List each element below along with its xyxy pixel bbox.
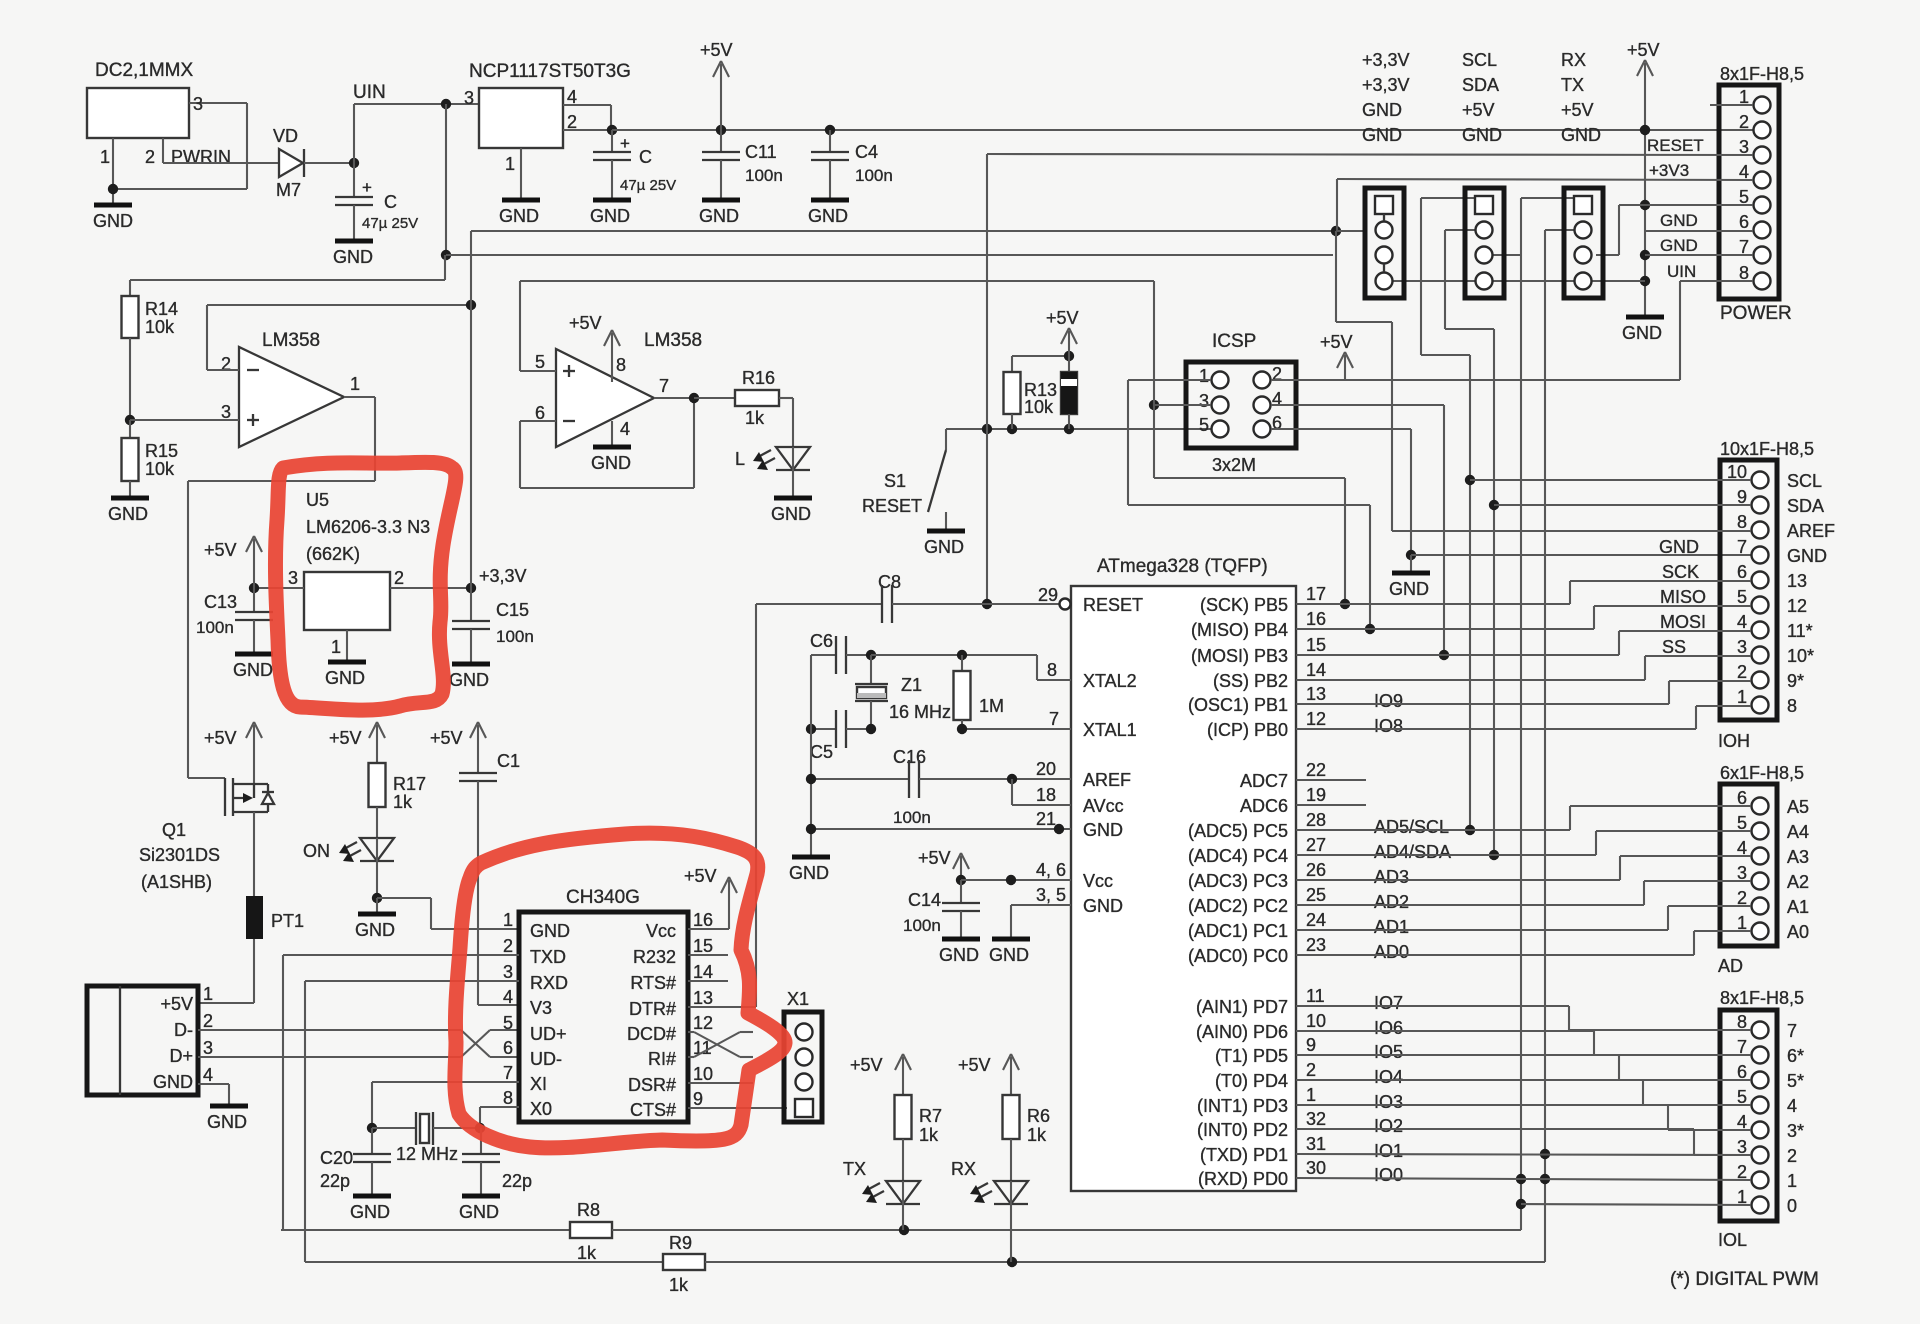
pin 1 GND (CH340) bbox=[503, 910, 570, 941]
svg-text:12: 12 bbox=[693, 1013, 713, 1033]
svg-text:5: 5 bbox=[503, 1013, 513, 1033]
svg-text:100n: 100n bbox=[893, 808, 931, 827]
svg-text:(ADC1) PC1: (ADC1) PC1 bbox=[1188, 921, 1288, 941]
svg-text:ATmega328 (TQFP): ATmega328 (TQFP) bbox=[1097, 556, 1268, 577]
pin 25 (ADC2) PC2 bbox=[1188, 885, 1409, 916]
svg-text:GND: GND bbox=[699, 206, 739, 226]
wire J3 +5V to POWER pin1 bbox=[1596, 205, 1645, 255]
crystal Q2 12 MHz bbox=[367, 1112, 485, 1164]
svg-text:AREF: AREF bbox=[1083, 770, 1131, 790]
pin 4 V3 (CH340) bbox=[503, 987, 552, 1018]
connector ICSP 3x2M bbox=[1186, 331, 1296, 475]
svg-text:(MISO) PB4: (MISO) PB4 bbox=[1191, 620, 1288, 640]
wire AD2 to AD pin3 bbox=[1296, 881, 1751, 905]
svg-text:SCL: SCL bbox=[1462, 50, 1497, 70]
ground GND (U5 pin1) bbox=[325, 630, 366, 688]
capacitor C21 22p bbox=[459, 1128, 532, 1222]
wire IO1 to IOL pin3 bbox=[1296, 1154, 1751, 1155]
wire POWER pin5 bbox=[1645, 204, 1753, 206]
svg-text:3: 3 bbox=[1737, 637, 1747, 657]
svg-text:GND: GND bbox=[591, 453, 631, 473]
svg-text:S1: S1 bbox=[884, 471, 906, 491]
svg-text:13: 13 bbox=[1306, 684, 1326, 704]
wire IO9 to IOH pin2 bbox=[1296, 681, 1751, 704]
wire +5V bus bbox=[612, 129, 1753, 131]
svg-text:8x1F-H8,5: 8x1F-H8,5 bbox=[1720, 64, 1804, 84]
svg-text:1k: 1k bbox=[745, 408, 765, 428]
pin 24 (ADC1) PC1 bbox=[1188, 910, 1409, 941]
svg-text:UIN: UIN bbox=[1667, 262, 1696, 281]
svg-text:2: 2 bbox=[1737, 662, 1747, 682]
svg-text:+3,3V: +3,3V bbox=[479, 566, 527, 586]
svg-text:UD+: UD+ bbox=[530, 1024, 567, 1044]
svg-text:GND: GND bbox=[989, 945, 1029, 965]
svg-text:2: 2 bbox=[394, 568, 404, 588]
svg-text:GND: GND bbox=[789, 863, 829, 883]
svg-text:RESET: RESET bbox=[862, 496, 922, 516]
wire PT1 to USB bbox=[198, 939, 254, 1003]
resistor R17 1k bbox=[369, 763, 427, 838]
svg-text:17: 17 bbox=[1306, 584, 1326, 604]
svg-text:25: 25 bbox=[1306, 885, 1326, 905]
svg-text:DCD#: DCD# bbox=[627, 1024, 676, 1044]
net labels column SCL SDA bbox=[1462, 50, 1502, 145]
IC CH340G bbox=[519, 887, 688, 1122]
svg-text:100n: 100n bbox=[745, 166, 783, 185]
wire RX net bbox=[1516, 198, 1574, 1230]
svg-text:GND: GND bbox=[1389, 579, 1429, 599]
svg-text:9: 9 bbox=[693, 1089, 703, 1109]
svg-text:7: 7 bbox=[1787, 1021, 1797, 1041]
svg-text:1: 1 bbox=[1737, 687, 1747, 707]
svg-text:GND: GND bbox=[1083, 896, 1123, 916]
svg-text:2: 2 bbox=[1306, 1060, 1316, 1080]
wire TX net bbox=[1540, 230, 1574, 1262]
svg-text:D-: D- bbox=[174, 1020, 193, 1040]
svg-text:13: 13 bbox=[693, 988, 713, 1008]
svg-text:11: 11 bbox=[1306, 986, 1325, 1006]
connector AD 6x1F-H8,5 bbox=[1718, 763, 1809, 976]
wire ICSP pin1 MISO bbox=[1128, 380, 1375, 634]
ground GND (regulator pin1) bbox=[499, 148, 540, 226]
pin 2 (T0) PD4 bbox=[1215, 1060, 1403, 1091]
svg-text:4: 4 bbox=[1787, 1096, 1797, 1116]
wire IO4 to IOL pin5 bbox=[1296, 1080, 1751, 1105]
pin 14 (SS) PB2 bbox=[1213, 660, 1326, 691]
svg-text:DSR#: DSR# bbox=[628, 1075, 676, 1095]
svg-text:AD4/SDA: AD4/SDA bbox=[1374, 842, 1451, 862]
svg-text:13: 13 bbox=[1787, 571, 1807, 591]
svg-text:3x2M: 3x2M bbox=[1212, 455, 1256, 475]
svg-text:L: L bbox=[735, 449, 745, 469]
svg-text:7: 7 bbox=[1737, 537, 1747, 557]
pin 5 UD+ (CH340) bbox=[503, 1013, 567, 1044]
svg-text:10k: 10k bbox=[1024, 397, 1054, 417]
wire op-amp2 feedback bbox=[520, 393, 699, 488]
svg-text:AD2: AD2 bbox=[1374, 892, 1409, 912]
svg-text:3*: 3* bbox=[1787, 1121, 1804, 1141]
svg-text:GND: GND bbox=[108, 504, 148, 524]
svg-text:+5V: +5V bbox=[1320, 332, 1353, 352]
svg-text:TX: TX bbox=[1561, 75, 1584, 95]
svg-text:+5V: +5V bbox=[1561, 100, 1594, 120]
wire MISO to IOH pin5 bbox=[1296, 606, 1751, 629]
svg-text:31: 31 bbox=[1306, 1134, 1326, 1154]
wire CH340 RXD bbox=[305, 981, 519, 1262]
wire AVcc pin18 bbox=[1012, 779, 1071, 805]
svg-text:8x1F-H8,5: 8x1F-H8,5 bbox=[1720, 988, 1804, 1008]
svg-text:4: 4 bbox=[203, 1065, 213, 1085]
capacitor C8 (DTR reset) bbox=[756, 572, 1060, 623]
svg-text:+5V: +5V bbox=[700, 40, 733, 60]
ground GND (crystal) bbox=[789, 857, 830, 883]
svg-text:10*: 10* bbox=[1787, 646, 1814, 666]
svg-text:+5V: +5V bbox=[329, 728, 362, 748]
svg-text:R16: R16 bbox=[742, 368, 775, 388]
svg-text:A4: A4 bbox=[1787, 822, 1809, 842]
svg-text:R15: R15 bbox=[145, 441, 178, 461]
resistor R14 10k bbox=[122, 280, 179, 420]
svg-text:9*: 9* bbox=[1787, 671, 1804, 691]
svg-text:C: C bbox=[639, 147, 652, 167]
capacitor C13 100n bbox=[196, 588, 273, 680]
wire RESET to POWER pin3 bbox=[987, 136, 1753, 155]
pin 8 XTAL2 bbox=[1047, 660, 1137, 691]
connector X1 bbox=[784, 989, 822, 1122]
pin 20 AREF bbox=[1036, 759, 1131, 790]
capacitor C4 100n bbox=[808, 125, 893, 226]
svg-text:SCK: SCK bbox=[1662, 562, 1699, 582]
svg-text:RI#: RI# bbox=[648, 1049, 676, 1069]
svg-text:IO7: IO7 bbox=[1374, 993, 1403, 1013]
svg-text:4: 4 bbox=[620, 419, 630, 439]
power +5V arrow (CH340 Vcc) bbox=[684, 866, 737, 929]
svg-text:14: 14 bbox=[693, 962, 713, 982]
svg-text:+3,3V: +3,3V bbox=[1362, 75, 1410, 95]
resistor R13 10k bbox=[1004, 351, 1075, 429]
svg-text:GND: GND bbox=[233, 660, 273, 680]
pin 10 DSR# (CH340) bbox=[628, 1064, 713, 1095]
LED L bbox=[735, 447, 810, 496]
svg-text:GND: GND bbox=[1362, 100, 1402, 120]
LED RX bbox=[951, 1159, 1028, 1262]
svg-text:16: 16 bbox=[693, 910, 713, 930]
svg-text:1: 1 bbox=[100, 147, 110, 167]
svg-text:+5V: +5V bbox=[958, 1055, 991, 1075]
svg-text:A1: A1 bbox=[1787, 897, 1809, 917]
power +5V arrow (C13) bbox=[204, 536, 262, 588]
wire DCD# RI# crossover bbox=[688, 1032, 753, 1057]
svg-text:C6: C6 bbox=[810, 631, 833, 651]
svg-text:VD: VD bbox=[273, 126, 298, 146]
svg-text:A5: A5 bbox=[1787, 797, 1809, 817]
svg-text:1: 1 bbox=[203, 984, 213, 1004]
svg-text:GND: GND bbox=[530, 921, 570, 941]
svg-text:6: 6 bbox=[1739, 212, 1749, 232]
wire SCL to IOH pin10 bbox=[1470, 479, 1751, 481]
svg-text:IO2: IO2 bbox=[1374, 1116, 1403, 1136]
pin 19 ADC6 bbox=[1240, 785, 1326, 816]
wire ICSP pin6 GND bbox=[1271, 429, 1753, 560]
wire R14 to UIN bbox=[130, 255, 445, 280]
power +5V arrow (top) bbox=[700, 40, 733, 130]
svg-text:IO4: IO4 bbox=[1374, 1067, 1403, 1087]
wire POWER pin6 GND bbox=[1645, 211, 1753, 231]
ground GND (S1) bbox=[924, 531, 965, 557]
pin 29 RESET bbox=[1038, 585, 1143, 615]
wire IO3 to IOL pin4 bbox=[1296, 1105, 1751, 1130]
svg-text:(MOSI) PB3: (MOSI) PB3 bbox=[1191, 646, 1288, 666]
svg-text:22: 22 bbox=[1306, 760, 1326, 780]
svg-text:1k: 1k bbox=[919, 1125, 939, 1145]
pin 15 (MOSI) PB3 bbox=[1191, 635, 1326, 666]
svg-text:IO8: IO8 bbox=[1374, 716, 1403, 736]
connector J1 4-pin bbox=[1365, 188, 1404, 298]
wire POWER pin8 UIN bbox=[1667, 262, 1753, 380]
power +5V arrow (ICSP) bbox=[1320, 332, 1353, 380]
wire USB D+ bbox=[198, 1030, 519, 1057]
svg-text:+5V: +5V bbox=[430, 728, 463, 748]
pin 16 (MISO) PB4 bbox=[1191, 609, 1326, 640]
wire AREF to IOH pin8 bbox=[1336, 231, 1751, 531]
svg-text:GND: GND bbox=[1462, 125, 1502, 145]
svg-text:CH340G: CH340G bbox=[566, 887, 640, 908]
wire UIN bus bbox=[446, 254, 1333, 256]
svg-text:IOH: IOH bbox=[1718, 731, 1750, 751]
wire ICSP pin2 +5V bbox=[1271, 379, 1680, 381]
pin 13 DTR# (CH340) bbox=[629, 988, 713, 1019]
pin 13 (OSC1) PB1 bbox=[1188, 684, 1403, 715]
wire DSR# bbox=[688, 1082, 753, 1084]
svg-text:7: 7 bbox=[659, 376, 669, 396]
power +5V arrow (R6) bbox=[958, 1054, 1019, 1095]
svg-text:R7: R7 bbox=[919, 1106, 942, 1126]
svg-text:GND: GND bbox=[924, 537, 964, 557]
wire ICSP pin4 MOSI bbox=[1271, 405, 1449, 660]
svg-text:29: 29 bbox=[1038, 585, 1058, 605]
svg-text:AD0: AD0 bbox=[1374, 942, 1409, 962]
svg-text:Si2301DS: Si2301DS bbox=[139, 845, 220, 865]
wire DTR to C8 bbox=[755, 604, 757, 1007]
svg-text:C1: C1 bbox=[497, 751, 520, 771]
wire IO7 to IOL pin8 bbox=[1296, 1006, 1751, 1030]
svg-text:ICSP: ICSP bbox=[1212, 331, 1256, 352]
svg-text:X0: X0 bbox=[530, 1099, 552, 1119]
pin 8 X0 (CH340) bbox=[503, 1088, 552, 1119]
svg-text:3: 3 bbox=[203, 1038, 213, 1058]
pin 1 (INT1) PD3 bbox=[1197, 1085, 1403, 1116]
svg-text:(T0) PD4: (T0) PD4 bbox=[1215, 1071, 1288, 1091]
svg-text:AD5/SCL: AD5/SCL bbox=[1374, 817, 1449, 837]
svg-text:8: 8 bbox=[616, 355, 626, 375]
wire DTR# bbox=[688, 1006, 756, 1008]
svg-text:Q1: Q1 bbox=[162, 820, 186, 840]
ground GND (pins 3,5) bbox=[989, 905, 1071, 965]
svg-text:R14: R14 bbox=[145, 299, 178, 319]
svg-text:+: + bbox=[620, 134, 630, 153]
connector USB bbox=[87, 984, 213, 1095]
annotation red circle around U5 bbox=[275, 462, 455, 710]
svg-text:+5V: +5V bbox=[204, 540, 237, 560]
wire CH340 TXD bbox=[283, 955, 519, 1230]
svg-text:3, 5: 3, 5 bbox=[1036, 885, 1066, 905]
pin 32 (INT0) PD2 bbox=[1197, 1109, 1403, 1140]
svg-text:(INT0) PD2: (INT0) PD2 bbox=[1197, 1120, 1288, 1140]
svg-text:A0: A0 bbox=[1787, 922, 1809, 942]
svg-text:C5: C5 bbox=[810, 742, 833, 762]
pin 26 (ADC3) PC3 bbox=[1188, 860, 1409, 891]
svg-text:(SS) PB2: (SS) PB2 bbox=[1213, 671, 1288, 691]
svg-text:22p: 22p bbox=[502, 1171, 532, 1191]
pin 6 UD- (CH340) bbox=[503, 1038, 562, 1069]
svg-text:AD1: AD1 bbox=[1374, 917, 1409, 937]
wire AD1 to AD pin2 bbox=[1296, 906, 1751, 930]
svg-text:AVcc: AVcc bbox=[1083, 796, 1124, 816]
svg-text:GND: GND bbox=[350, 1202, 390, 1222]
svg-text:GND: GND bbox=[459, 1202, 499, 1222]
svg-text:GND: GND bbox=[939, 945, 979, 965]
svg-text:(AIN1) PD7: (AIN1) PD7 bbox=[1196, 997, 1288, 1017]
svg-text:(RXD) PD0: (RXD) PD0 bbox=[1198, 1169, 1288, 1189]
svg-text:21: 21 bbox=[1036, 809, 1056, 829]
svg-text:2: 2 bbox=[1787, 1146, 1797, 1166]
svg-text:XTAL1: XTAL1 bbox=[1083, 720, 1137, 740]
svg-text:1: 1 bbox=[350, 374, 360, 394]
svg-text:6*: 6* bbox=[1787, 1046, 1804, 1066]
svg-text:(INT1) PD3: (INT1) PD3 bbox=[1197, 1096, 1288, 1116]
capacitor C14 100n bbox=[903, 880, 980, 965]
svg-text:23: 23 bbox=[1306, 935, 1326, 955]
power +5V arrow (Vcc) bbox=[918, 848, 969, 880]
ground GND (R15) bbox=[108, 498, 149, 524]
svg-text:1: 1 bbox=[331, 637, 341, 657]
ground GND (USB) bbox=[198, 1084, 248, 1132]
svg-text:TX: TX bbox=[843, 1159, 866, 1179]
svg-text:+3,3V: +3,3V bbox=[1362, 50, 1410, 70]
svg-text:V3: V3 bbox=[530, 998, 552, 1018]
wire U5 pin3 bbox=[249, 583, 304, 593]
svg-text:(T1) PD5: (T1) PD5 bbox=[1215, 1046, 1288, 1066]
svg-text:11*: 11* bbox=[1787, 621, 1813, 641]
svg-text:(ADC3) PC3: (ADC3) PC3 bbox=[1188, 871, 1288, 891]
svg-text:DC2,1MMX: DC2,1MMX bbox=[95, 60, 194, 81]
connector J3 4-pin bbox=[1564, 188, 1603, 298]
svg-text:3: 3 bbox=[288, 568, 298, 588]
svg-text:GND: GND bbox=[808, 206, 848, 226]
ground GND (ON LED) bbox=[355, 898, 396, 940]
svg-text:IO1: IO1 bbox=[1374, 1141, 1403, 1161]
pin 9 CTS# (CH340) bbox=[630, 1089, 703, 1120]
svg-text:C4: C4 bbox=[855, 142, 878, 162]
wire SCK to IOH pin6 bbox=[1296, 581, 1751, 604]
pin 21 GND bbox=[1036, 809, 1123, 840]
svg-text:A2: A2 bbox=[1787, 872, 1809, 892]
svg-text:1: 1 bbox=[503, 910, 513, 930]
svg-text:12 MHz: 12 MHz bbox=[396, 1144, 458, 1164]
transistor Q1 Si2301DS (A1SHB) bbox=[139, 778, 274, 892]
svg-text:RX: RX bbox=[951, 1159, 976, 1179]
svg-text:47µ 25V: 47µ 25V bbox=[362, 215, 418, 232]
op-amp U1A LM358 comparator bbox=[221, 330, 360, 447]
LED ON bbox=[303, 838, 394, 903]
LED TX bbox=[843, 1159, 920, 1230]
wire XTAL1 net bbox=[806, 724, 967, 734]
pin 14 RTS# (CH340) bbox=[630, 962, 713, 993]
svg-text:+5V: +5V bbox=[204, 728, 237, 748]
svg-text:DTR#: DTR# bbox=[629, 999, 676, 1019]
svg-text:GND: GND bbox=[93, 211, 133, 231]
wire +3,3V net vertical bbox=[471, 226, 1341, 588]
wire ADC7 ADC6 stubs bbox=[1296, 780, 1366, 805]
svg-text:12: 12 bbox=[1787, 596, 1807, 616]
svg-text:1: 1 bbox=[1306, 1085, 1316, 1105]
power +5V arrow (R7) bbox=[850, 1054, 911, 1095]
capacitor C11 100n bbox=[699, 125, 783, 226]
wire UIN node bbox=[304, 82, 479, 260]
svg-text:PT1: PT1 bbox=[271, 911, 304, 931]
pin 16 Vcc (CH340) bbox=[646, 910, 713, 941]
svg-text:SCL: SCL bbox=[1787, 471, 1822, 491]
wire AD3 to AD pin4 bbox=[1296, 856, 1751, 880]
pin 9 (T1) PD5 bbox=[1215, 1035, 1403, 1066]
svg-text:16: 16 bbox=[1306, 609, 1326, 629]
pin 27 (ADC4) PC4 bbox=[1188, 835, 1451, 866]
resistor R8 1k bbox=[281, 1200, 1521, 1263]
svg-text:R8: R8 bbox=[577, 1200, 600, 1220]
svg-text:8: 8 bbox=[503, 1088, 513, 1108]
svg-text:10k: 10k bbox=[145, 459, 175, 479]
svg-text:X1: X1 bbox=[787, 989, 809, 1009]
svg-text:2: 2 bbox=[503, 936, 513, 956]
svg-text:(AIN0) PD6: (AIN0) PD6 bbox=[1196, 1022, 1288, 1042]
svg-text:+5V: +5V bbox=[569, 313, 602, 333]
capacitor C16 100n bbox=[806, 747, 1071, 827]
pin 28 (ADC5) PC5 bbox=[1188, 810, 1449, 841]
wire R232 RTS stubs bbox=[688, 955, 728, 981]
svg-text:(ADC2) PC2: (ADC2) PC2 bbox=[1188, 896, 1288, 916]
svg-text:12: 12 bbox=[1306, 709, 1326, 729]
svg-text:Vcc: Vcc bbox=[646, 921, 676, 941]
wire Q1 drain bbox=[253, 812, 255, 896]
pin 10 (AIN0) PD6 bbox=[1196, 1011, 1403, 1042]
svg-text:C20: C20 bbox=[320, 1148, 353, 1168]
wire PWRIN bbox=[163, 162, 279, 164]
wire POWER pin7 GND bbox=[1645, 236, 1753, 255]
svg-text:5: 5 bbox=[1737, 587, 1747, 607]
wire regulator output bbox=[563, 105, 617, 135]
svg-text:CTS#: CTS# bbox=[630, 1100, 676, 1120]
svg-text:GND: GND bbox=[1659, 537, 1699, 557]
connector POWER bbox=[1719, 64, 1804, 324]
svg-text:18: 18 bbox=[1036, 785, 1056, 805]
svg-text:RESET: RESET bbox=[1647, 136, 1704, 155]
svg-text:47µ 25V: 47µ 25V bbox=[620, 177, 676, 194]
wire IO0 to IOL pin2 bbox=[1296, 1178, 1751, 1180]
svg-text:IOL: IOL bbox=[1718, 1230, 1747, 1250]
ground GND (LED L) bbox=[771, 498, 812, 524]
resistor 1M bbox=[954, 655, 1005, 729]
svg-text:GND: GND bbox=[1561, 125, 1601, 145]
svg-text:UIN: UIN bbox=[353, 82, 386, 103]
svg-text:GND: GND bbox=[771, 504, 811, 524]
svg-text:(662K): (662K) bbox=[306, 544, 360, 564]
svg-text:2: 2 bbox=[145, 147, 155, 167]
svg-text:C13: C13 bbox=[204, 592, 237, 612]
svg-text:3: 3 bbox=[464, 88, 474, 108]
svg-text:2: 2 bbox=[1739, 112, 1749, 132]
svg-text:POWER: POWER bbox=[1720, 303, 1792, 324]
svg-text:GND: GND bbox=[153, 1072, 193, 1092]
